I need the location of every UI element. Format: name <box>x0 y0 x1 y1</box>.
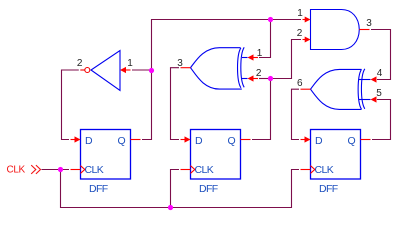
svg-text:2: 2 <box>297 28 303 39</box>
svg-text:1: 1 <box>297 8 303 19</box>
wire XOR pin2 branch <box>259 78 271 80</box>
svg-text:5: 5 <box>376 88 382 99</box>
svg-text:Q: Q <box>348 135 356 147</box>
wire XOR pin1 branch <box>259 20 271 58</box>
svg-text:D: D <box>195 135 203 147</box>
svg-text:DFF: DFF <box>89 183 108 195</box>
svg-text:4: 4 <box>377 68 383 79</box>
wire net DFF1.Q top rail <box>142 20 301 140</box>
xor pin 3 output stub <box>181 67 191 69</box>
wire CLK riser DFF2 <box>171 170 180 208</box>
svg-text:Q: Q <box>118 135 126 147</box>
and gate U3 body <box>311 10 360 50</box>
svg-text:D: D <box>85 135 93 147</box>
xor pin 1 arrow <box>248 54 259 60</box>
dff1 D input arrow <box>71 136 81 142</box>
xor gate U2 body <box>191 47 248 89</box>
svg-text:1: 1 <box>127 58 133 69</box>
input port CLK chevron <box>31 165 40 174</box>
junction node DFF2.Q/XOR pin2/AND pin2 <box>268 76 273 81</box>
inverter pin 1 arrow <box>120 67 131 73</box>
dff U7 (DFF3) box <box>311 130 361 180</box>
junction node CLK rail DFF2 riser <box>168 205 173 210</box>
svg-text:3: 3 <box>177 58 183 69</box>
svg-text:CLK: CLK <box>85 164 104 176</box>
xor pin 2 arrow <box>248 75 259 81</box>
svg-text:CLK: CLK <box>7 164 26 175</box>
wire DFF2.Q riser <box>252 79 271 140</box>
svg-text:Q: Q <box>228 135 236 147</box>
wire inverter input tap <box>132 69 152 71</box>
junction node CLK input <box>58 167 63 172</box>
dff U5 (DFF1) box <box>81 130 131 180</box>
svg-text:D: D <box>315 135 323 147</box>
junction node DFF1.Q/inverter tap <box>149 68 154 73</box>
svg-text:DFF: DFF <box>319 183 338 195</box>
and pin 2 arrow <box>303 37 311 43</box>
inverter U1 body <box>91 51 120 91</box>
wire AND pin2 branch <box>271 40 302 79</box>
and pin 1 arrow <box>303 17 311 23</box>
xnor pin 5 arrow <box>371 96 377 102</box>
dff2 D input arrow <box>181 136 191 142</box>
wire XNOR output to DFF3.D <box>292 89 300 139</box>
dff2 CLK stub and wedge <box>181 166 195 174</box>
svg-text:1: 1 <box>257 48 263 59</box>
svg-text:6: 6 <box>297 78 303 89</box>
wire XOR output to DFF2.D <box>171 68 180 140</box>
dff3 D input arrow <box>301 136 311 142</box>
inverter output red stub <box>80 69 85 71</box>
wire DFF3.Q to XNOR pin5 <box>372 100 391 140</box>
dff1 CLK stub and wedge <box>71 166 85 174</box>
svg-text:2: 2 <box>256 68 262 79</box>
xnor gate U4 body (xor shape) <box>311 69 371 110</box>
xnor pin 6 output stub <box>301 88 311 90</box>
dff3 Q output stub <box>361 139 371 141</box>
junction node top rail/XOR pin1 <box>268 17 273 22</box>
dff3 CLK stub and wedge <box>301 166 315 174</box>
dff1 Q output stub <box>131 139 141 141</box>
wire AND output to XNOR pin4 <box>371 30 391 80</box>
wire CLK bottom rail <box>61 170 300 208</box>
wire CLK input <box>42 169 70 171</box>
wire inverter output to DFF1.D <box>62 70 79 140</box>
and pin 3 output stub <box>359 29 369 31</box>
inverter output bubble <box>85 68 90 73</box>
dff U6 (DFF2) box <box>191 130 241 180</box>
svg-text:3: 3 <box>366 18 372 29</box>
xnor pin 4 arrow <box>371 76 377 82</box>
dff2 Q output stub <box>241 139 251 141</box>
svg-text:DFF: DFF <box>199 183 218 195</box>
svg-text:CLK: CLK <box>315 164 334 176</box>
svg-text:CLK: CLK <box>195 164 214 176</box>
svg-text:2: 2 <box>77 58 83 69</box>
